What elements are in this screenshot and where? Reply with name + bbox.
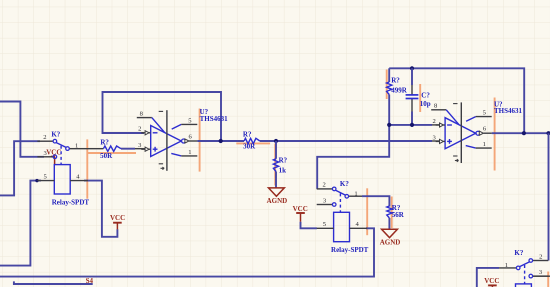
- U2 pin 1: [466, 141, 492, 148]
- wire: U2 output to right edge: [492, 132, 550, 134]
- R1 designator: [100, 139, 109, 147]
- svg-text:56R: 56R: [392, 211, 405, 219]
- R2 value 30R: [243, 143, 256, 151]
- op-amp U2 (THS4631): [431, 100, 522, 163]
- U1 pin 6 output: [182, 133, 198, 143]
- svg-text:2: 2: [43, 134, 46, 141]
- highlight mark near relay K2 lever: [366, 188, 368, 235]
- U1 pin 5: [172, 117, 198, 129]
- svg-text:VCC: VCC: [293, 205, 308, 213]
- R5 value 56R: [392, 211, 405, 219]
- wire: VCC to K2 pin 5: [301, 222, 317, 229]
- R4 designator: [391, 77, 400, 85]
- junction: C1 on U2 pin 2: [410, 123, 414, 127]
- K1 actuator dashed link: [60, 146, 62, 165]
- U1 power rail line: [159, 110, 167, 171]
- highlight mark under output wire of U1: [236, 142, 270, 144]
- resistor R2 body: [244, 138, 260, 143]
- svg-text:AGND: AGND: [380, 239, 401, 247]
- K1 designator K?: [51, 130, 60, 138]
- K3 pin 1 label: [505, 262, 508, 269]
- relay K2 (Relay-SPDT): [317, 180, 369, 254]
- svg-text:R?: R?: [279, 156, 288, 164]
- K2 NO contact: [345, 195, 349, 199]
- svg-text:VCC: VCC: [484, 277, 499, 285]
- K2 pin 4: [350, 221, 368, 228]
- svg-text:10p: 10p: [420, 100, 431, 108]
- R4 value 499R: [391, 86, 408, 94]
- VCC power port (K2 pin 5): [293, 205, 308, 222]
- resistor R5 body (56R): [387, 206, 392, 218]
- R2 designator: [243, 131, 252, 139]
- wire: left edge net to K1 pin 2: [0, 141, 40, 195]
- U1 pin 8: [137, 110, 165, 132]
- wire: U2 inverting input net: [389, 124, 440, 126]
- junction: branch to K3: [546, 131, 550, 135]
- highlight mark near op-amp U1: [199, 109, 201, 172]
- K2 common contact: [332, 187, 336, 191]
- K1 part name Relay-SPDT: [52, 198, 90, 206]
- svg-text:K?: K?: [514, 249, 523, 257]
- svg-text:499R: 499R: [391, 86, 408, 94]
- K1 switch lever: [56, 143, 66, 148]
- wire: R3 to AGND: [275, 141, 277, 188]
- K3 coil box: [516, 284, 532, 287]
- svg-text:1: 1: [505, 262, 508, 269]
- VCC power port (K3 coil): [484, 277, 499, 287]
- U1 part number THS4631: [200, 115, 229, 123]
- svg-text:2: 2: [433, 118, 436, 125]
- U2 pin 3 non-inverting input: [433, 134, 445, 143]
- C1 designator: [421, 92, 430, 100]
- svg-text:THS4631: THS4631: [200, 115, 229, 123]
- K2 pin 3: [317, 198, 336, 207]
- K3 NO contact: [516, 266, 520, 270]
- svg-text:50R: 50R: [100, 152, 113, 160]
- op-amp U1 (THS4631): [137, 108, 228, 171]
- K1 common contact: [53, 139, 57, 143]
- svg-text:THS4631: THS4631: [494, 107, 523, 115]
- wire: R5 to AGND: [388, 218, 390, 229]
- K2 pin 1 label: [354, 190, 357, 197]
- svg-text:K?: K?: [51, 130, 60, 138]
- junction: output net / R3 tap: [274, 139, 278, 143]
- K3 switch lever: [519, 262, 529, 267]
- U1 pin 1: [171, 149, 197, 156]
- C1 value 10p: [420, 100, 431, 108]
- U2 part number THS4631: [494, 107, 523, 115]
- U1 designator U?: [200, 108, 209, 116]
- svg-text:R?: R?: [243, 131, 252, 139]
- svg-text:C?: C?: [421, 92, 430, 100]
- K2 coil box: [334, 212, 350, 241]
- junction: C1 tap on feedback: [410, 66, 414, 70]
- U2 designator U?: [494, 100, 503, 108]
- junction: feedback tap on U2 output: [522, 131, 526, 135]
- wire: K3 pin 1 going down: [477, 268, 517, 287]
- wire: K2 pin 1 to R5: [349, 196, 390, 206]
- svg-text:Relay-SPDT: Relay-SPDT: [331, 246, 369, 254]
- AGND power port at (389.5,229.3): [380, 229, 401, 246]
- U1 pin 2 inverting input: [138, 126, 150, 135]
- wire: C1 leads: [411, 68, 413, 125]
- wire: input net to K1 pin 3: [0, 102, 44, 157]
- wire: K2 pin 2 to U2 inverting input: [317, 125, 389, 189]
- wire: S4 net: [14, 281, 93, 284]
- highlight mark behind resistor R5 56R: [391, 197, 393, 229]
- svg-text:1k: 1k: [279, 166, 287, 174]
- resistor R4 body (499R): [387, 82, 392, 95]
- VCC power port on K1 pin 3: [46, 149, 61, 165]
- AGND power port at (276.4,187.9): [267, 188, 288, 205]
- relay K3 (Relay-SPDT): [498, 249, 549, 287]
- svg-text:2: 2: [138, 126, 141, 133]
- wire: K1 pin 4 to VCC port: [84, 181, 117, 237]
- highlight mark behind resistor R3 1k: [274, 144, 276, 186]
- svg-text:1: 1: [75, 143, 78, 150]
- U2 power rail line: [453, 102, 461, 163]
- svg-text:1: 1: [188, 149, 191, 156]
- K1 pin 2: [37, 134, 53, 141]
- K3 pin 3: [529, 269, 548, 278]
- svg-text:1: 1: [483, 141, 486, 148]
- wire: U2 feedback top: [389, 68, 524, 133]
- K2 part name Relay-SPDT: [331, 246, 369, 254]
- svg-text:R?: R?: [391, 77, 400, 85]
- wire: K1 pin 5 to left edge: [0, 181, 41, 266]
- U2 pin 5: [466, 110, 492, 122]
- highlight mark behind resistor R4 499R: [386, 70, 388, 100]
- K3 pin 2: [533, 253, 549, 260]
- wire: U1 feedback loop: [103, 92, 222, 141]
- wire: K2 pin 4 return to left edge: [0, 228, 374, 276]
- VCC power port (K1 coil): [110, 214, 125, 229]
- K2 switch lever: [336, 190, 346, 195]
- wire: K3 pin 3 stub: [533, 275, 550, 277]
- K1 pin 5: [37, 173, 54, 180]
- U2 pin 8: [431, 103, 459, 125]
- K3 common contact: [529, 259, 533, 263]
- svg-text:Relay-SPDT: Relay-SPDT: [52, 198, 90, 206]
- K3 designator K?: [514, 249, 523, 257]
- svg-text:2: 2: [539, 253, 542, 260]
- junction: U1 output / feedback: [219, 139, 223, 143]
- resistor R3 body (1k): [273, 159, 278, 172]
- wire: R4 feedback branch: [388, 68, 390, 125]
- svg-text:2: 2: [323, 182, 326, 189]
- junction: R4 on U2 pin 2: [387, 123, 391, 127]
- U2 pin 6 output: [476, 126, 492, 136]
- wire: U2 output down to K3 pin 2: [548, 133, 550, 260]
- K2 designator K?: [340, 180, 349, 188]
- relay K1 (Relay-SPDT): [37, 130, 89, 206]
- junction on K1 pin 5 wire: [35, 179, 38, 182]
- highlight mark near relay K3 pin 3: [547, 272, 549, 287]
- svg-text:30R: 30R: [243, 143, 256, 151]
- svg-text:VCC: VCC: [110, 214, 125, 222]
- U1 pin 3 non-inverting input: [138, 142, 150, 151]
- highlight mark near relay K1: [86, 139, 88, 198]
- K2 actuator dashed link: [339, 193, 341, 212]
- U1 triangle body: [151, 126, 182, 157]
- U2 pin 2 inverting input: [433, 118, 445, 127]
- net label S4: [86, 277, 94, 285]
- K1 pin 1 label: [75, 143, 78, 150]
- svg-text:K?: K?: [340, 180, 349, 188]
- K3 actuator dashed link: [524, 265, 526, 284]
- R3 value 1k: [279, 166, 287, 174]
- R3 designator: [279, 156, 288, 164]
- K1 NO contact: [66, 147, 70, 151]
- K1 coil box: [54, 165, 70, 194]
- R5 designator: [392, 204, 401, 212]
- capacitor C1 body (10p): [406, 95, 419, 99]
- wire: U1 output net: [197, 140, 440, 142]
- K1 pin 3: [37, 150, 56, 159]
- K2 pin 2: [317, 182, 333, 189]
- highlight mark near op-amp U2: [494, 98, 496, 171]
- K1 pin 4: [70, 173, 88, 180]
- resistor R1 body: [103, 146, 121, 151]
- highlight mark right of capacitor C1: [419, 84, 421, 112]
- U2 triangle body: [445, 118, 476, 149]
- svg-text:AGND: AGND: [267, 197, 288, 205]
- svg-text:1: 1: [354, 190, 357, 197]
- wire: K1 pin 1 to R1 to U1 pin 3: [69, 148, 145, 150]
- highlight mark under resistor R1 50R: [87, 152, 136, 154]
- svg-text:R?: R?: [100, 139, 109, 147]
- K2 pin 5: [317, 221, 334, 228]
- R1 value 50R: [100, 152, 113, 160]
